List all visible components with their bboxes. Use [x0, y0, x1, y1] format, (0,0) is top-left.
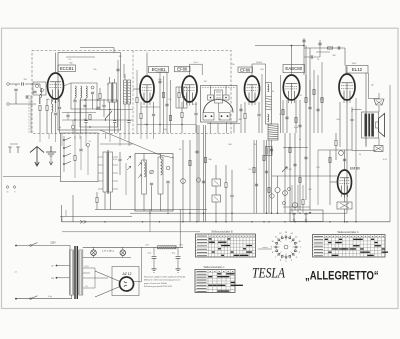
switch zigzag	[138, 175, 141, 178]
mixer network box	[80, 100, 118, 127]
capacitor	[239, 109, 242, 111]
resistor	[39, 105, 41, 110]
node	[299, 213, 300, 214]
node	[182, 221, 183, 222]
wire	[258, 248, 272, 250]
wire	[182, 140, 184, 222]
wire	[79, 133, 81, 139]
coil	[86, 86, 87, 98]
wire	[39, 111, 41, 133]
wire	[46, 99, 48, 105]
wire	[95, 287, 120, 298]
oscillator coil	[108, 83, 112, 102]
wire	[156, 71, 167, 73]
wire phono input	[3, 175, 61, 177]
wire	[210, 122, 212, 133]
coupling parts	[159, 72, 161, 133]
wire	[146, 106, 148, 134]
capacitor	[292, 213, 296, 220]
dial lamp	[91, 250, 97, 256]
capacitor	[33, 91, 36, 93]
wire	[74, 98, 76, 100]
node	[104, 221, 105, 222]
wire	[61, 205, 63, 222]
capacitor	[166, 181, 169, 183]
transformer winding	[371, 114, 374, 137]
wire	[378, 106, 380, 112]
wire	[55, 133, 57, 142]
wire	[55, 53, 57, 74]
node	[289, 213, 290, 214]
components below EF80 2	[244, 113, 246, 118]
wire	[346, 67, 348, 75]
wire heater rail	[83, 246, 183, 248]
wire	[103, 108, 105, 117]
node	[146, 124, 147, 125]
wire	[291, 46, 293, 76]
wire	[39, 95, 41, 104]
trimmer	[86, 143, 89, 146]
wire	[352, 150, 375, 152]
tube EF80	[182, 76, 197, 106]
switch zigzag	[127, 156, 131, 160]
svg-text:EF80: EF80	[177, 67, 188, 72]
wire	[74, 161, 76, 178]
wire	[205, 125, 207, 222]
wire	[96, 109, 133, 111]
switch contact	[63, 139, 65, 141]
capacitor	[270, 149, 273, 151]
wire	[113, 180, 119, 182]
wire	[109, 77, 111, 83]
wire	[282, 100, 284, 133]
arrowhead	[49, 162, 53, 166]
capacitor	[73, 100, 76, 102]
capacitor	[165, 104, 168, 106]
wire	[59, 110, 61, 133]
wire	[231, 170, 233, 194]
dashed shield box around RF section	[32, 51, 231, 134]
wire	[65, 210, 67, 217]
capacitor	[265, 171, 268, 173]
capacitor	[202, 181, 205, 183]
wire	[344, 209, 346, 222]
wire	[39, 98, 41, 104]
wire	[368, 73, 370, 99]
dial lamp	[120, 250, 126, 256]
svg-text:10k: 10k	[163, 129, 166, 131]
osc coil 2	[158, 157, 163, 194]
wire	[215, 186, 217, 195]
node	[263, 221, 264, 222]
svg-text:EF80: EF80	[240, 67, 251, 72]
ground	[176, 269, 181, 273]
node	[167, 213, 168, 214]
capacitor	[84, 121, 87, 123]
wire	[160, 154, 162, 160]
capacitor	[26, 95, 28, 98]
capacitor	[113, 121, 116, 123]
wire	[344, 194, 346, 202]
svg-text:10: 10	[271, 241, 273, 243]
power transformer core	[74, 246, 75, 299]
node	[277, 213, 278, 214]
component circle	[275, 187, 280, 192]
component box	[212, 179, 221, 186]
svg-text:Netzvorsch. gültig für 220V, s: Netzvorsch. gültig für 220V, stabilisier…	[144, 276, 186, 279]
wire	[15, 92, 17, 104]
resistor	[335, 140, 337, 145]
wire	[335, 146, 337, 160]
svg-text:1n: 1n	[144, 124, 146, 126]
wire	[85, 123, 87, 133]
wire	[74, 136, 76, 155]
resistor	[46, 105, 48, 110]
svg-text:0,1μ: 0,1μ	[48, 296, 52, 298]
resistor	[189, 160, 191, 165]
wire	[329, 150, 331, 205]
wire	[210, 86, 212, 96]
wire	[124, 133, 126, 139]
dashed internal shield	[132, 51, 134, 134]
wire	[352, 109, 362, 111]
wire	[344, 150, 346, 170]
capacitor	[311, 55, 313, 58]
stator box	[203, 113, 214, 121]
resistor	[289, 147, 291, 152]
wire	[265, 64, 267, 83]
capacitor	[79, 149, 82, 151]
wire	[141, 247, 143, 281]
wire	[95, 277, 108, 279]
resistor	[204, 157, 206, 162]
component circle	[270, 194, 274, 198]
wire	[286, 100, 288, 133]
svg-text:10k: 10k	[336, 119, 339, 121]
wire	[98, 172, 103, 174]
wire	[203, 125, 205, 222]
capacitor	[316, 109, 319, 111]
node	[303, 45, 305, 47]
wire	[71, 295, 73, 299]
svg-text:„ALLEGRETTO“: „ALLEGRETTO“	[305, 270, 379, 283]
wire	[51, 112, 53, 133]
wire	[98, 188, 103, 190]
capacitor	[127, 121, 130, 123]
resistor	[225, 182, 227, 187]
wire	[302, 205, 304, 214]
resistor	[268, 187, 270, 192]
resistor	[74, 155, 76, 160]
wire	[72, 129, 74, 133]
svg-text:127: 127	[51, 266, 54, 268]
svg-text:2M: 2M	[24, 79, 27, 81]
band filter box	[33, 82, 46, 95]
speaker cone	[379, 114, 385, 137]
wire	[15, 84, 17, 86]
tube label EF80 2	[238, 67, 253, 72]
switch contact	[63, 147, 65, 149]
wire	[85, 98, 87, 120]
svg-text:1M: 1M	[289, 169, 292, 171]
wire cathode	[51, 99, 53, 104]
capacitor	[58, 107, 61, 109]
component box	[212, 195, 221, 202]
wire	[198, 125, 200, 222]
AZ12 enclosure box	[112, 267, 139, 296]
ground	[152, 269, 157, 273]
svg-text:11: 11	[275, 236, 277, 238]
node	[271, 213, 272, 214]
wire	[277, 193, 279, 214]
trimmer	[91, 86, 94, 89]
wire riser	[319, 40, 321, 57]
wire	[100, 143, 133, 145]
wire ground bus	[62, 221, 391, 223]
wire	[30, 95, 32, 133]
svg-text:2M: 2M	[119, 56, 122, 58]
wire	[297, 185, 299, 213]
node	[344, 221, 345, 222]
wire	[39, 84, 41, 88]
tone network box	[290, 210, 323, 222]
wire	[317, 75, 319, 133]
svg-text:30/300: 30/300	[256, 62, 262, 64]
resistor	[327, 47, 332, 49]
svg-text:TESLA: TESLA	[252, 266, 286, 282]
wire	[104, 192, 106, 210]
wire	[134, 281, 142, 283]
resistor	[162, 92, 164, 97]
capacitor	[150, 183, 153, 185]
terminal	[8, 147, 12, 153]
wire	[295, 100, 297, 133]
node	[231, 213, 232, 214]
node	[196, 221, 197, 222]
capacitor	[304, 212, 311, 219]
resistor	[136, 97, 138, 102]
wire	[389, 85, 391, 222]
wire	[128, 104, 130, 120]
wire diagonal	[160, 155, 174, 158]
wire grid	[133, 88, 140, 90]
RF unit box	[58, 53, 121, 131]
svg-text:7: 7	[275, 257, 276, 259]
wire	[316, 51, 330, 53]
svg-text:1n: 1n	[299, 139, 301, 141]
svg-text:25k: 25k	[231, 64, 234, 66]
wire	[256, 140, 258, 213]
svg-text:Meßwerte: 100V U-beschleunigt: Meßwerte: 100V U-beschleunigt gemessen	[144, 279, 180, 282]
transformer winding	[368, 114, 370, 137]
wire	[268, 140, 270, 213]
wire	[55, 100, 57, 113]
capacitor	[91, 92, 94, 94]
table Wellenumschalter C	[195, 266, 243, 292]
wire	[80, 98, 82, 133]
wire	[39, 133, 41, 142]
components below EF80	[181, 112, 183, 117]
wire	[113, 164, 119, 166]
svg-text:220V: 220V	[50, 243, 56, 245]
capacitor	[96, 107, 99, 109]
node	[55, 101, 57, 103]
AF transformer	[103, 152, 107, 192]
wire	[304, 56, 310, 58]
coil L ant	[40, 88, 42, 98]
trimmer box	[208, 95, 214, 100]
wire	[94, 268, 96, 288]
wire	[72, 195, 74, 222]
node	[294, 221, 295, 222]
tube label ECC81	[58, 65, 76, 72]
tube ECH81	[140, 76, 154, 106]
wire	[167, 184, 169, 211]
node	[251, 221, 252, 222]
wire	[346, 100, 348, 213]
wire	[251, 64, 253, 76]
wire top bus center	[255, 45, 304, 47]
svg-text:2k: 2k	[107, 84, 109, 86]
wire	[215, 202, 217, 222]
node	[355, 221, 356, 222]
svg-text:1M: 1M	[204, 81, 207, 83]
wire	[294, 133, 296, 210]
wire	[153, 133, 155, 139]
svg-text:14: 14	[291, 233, 293, 235]
node	[149, 213, 150, 214]
switch	[30, 298, 32, 300]
wire	[98, 180, 103, 182]
node	[225, 221, 226, 222]
wire	[72, 120, 74, 125]
node	[84, 99, 85, 100]
ALLEGRETTO title	[305, 270, 379, 283]
wire	[330, 181, 338, 183]
arrow junction	[80, 220, 87, 223]
svg-text:5k: 5k	[359, 154, 361, 156]
primary winding	[70, 250, 74, 295]
wire	[109, 133, 111, 142]
svg-text:Wellenumschalter A: Wellenumschalter A	[337, 231, 358, 234]
wire	[99, 88, 101, 93]
trimmer box	[223, 95, 229, 100]
wire	[113, 48, 115, 53]
wire	[378, 138, 380, 146]
wire	[113, 156, 119, 158]
component circle	[293, 203, 298, 208]
svg-text:ECC81: ECC81	[60, 66, 74, 71]
node	[284, 221, 285, 222]
svg-text:Wellenumschalter B: Wellenumschalter B	[211, 231, 233, 234]
wire	[119, 152, 121, 158]
wire shield	[28, 95, 30, 133]
resistor	[313, 89, 315, 94]
wire	[80, 152, 82, 170]
components below ECH81	[140, 113, 142, 118]
electrolytic capacitor	[177, 247, 179, 255]
wire top bus segment left	[80, 47, 114, 49]
wire	[318, 149, 352, 151]
tube EABC80	[283, 75, 299, 104]
capacitor	[116, 69, 119, 71]
svg-text:15: 15	[295, 236, 297, 238]
resistor diagonal	[105, 111, 112, 119]
wire	[240, 104, 242, 133]
wire	[96, 192, 98, 197]
wire	[299, 100, 301, 133]
wire	[231, 198, 233, 222]
wire	[48, 133, 50, 139]
osc coil	[142, 160, 147, 194]
transformer winding	[365, 114, 368, 137]
svg-text:EL12: EL12	[352, 67, 363, 72]
node	[309, 213, 310, 214]
variable capacitor rotor arc	[204, 100, 234, 113]
component	[339, 151, 344, 156]
wire	[69, 246, 71, 251]
resistor	[295, 117, 297, 122]
wire	[99, 99, 101, 110]
wire	[136, 103, 138, 133]
wire	[225, 165, 227, 182]
IF transformer T1	[124, 80, 127, 104]
capacitor	[255, 184, 258, 186]
capacitor	[308, 107, 311, 109]
tube EF80 second	[245, 76, 260, 106]
wire	[225, 188, 227, 222]
svg-text:4: 4	[291, 260, 292, 262]
wire	[261, 74, 263, 133]
wire	[151, 186, 153, 211]
screen network	[190, 64, 203, 75]
IF transformer T3	[266, 83, 272, 125]
svg-text:50μ: 50μ	[148, 253, 151, 255]
volume pot box	[266, 146, 273, 155]
wire heater taps	[83, 267, 95, 269]
svg-text:EM 80: EM 80	[350, 167, 360, 171]
wire	[271, 140, 273, 213]
wire	[280, 75, 282, 133]
wire	[10, 143, 18, 145]
tuning coil box	[71, 83, 97, 109]
node	[203, 213, 204, 214]
resistor	[282, 109, 284, 114]
svg-text:1: 1	[300, 247, 301, 249]
tuning gang box	[201, 86, 238, 123]
wire	[355, 98, 357, 222]
wire mains tap	[57, 265, 70, 267]
tube EL12	[339, 74, 355, 104]
capacitor	[102, 105, 105, 107]
wire	[46, 111, 48, 133]
pickup terminal	[13, 186, 15, 188]
svg-text:50μ: 50μ	[172, 253, 175, 255]
wire	[252, 63, 266, 65]
svg-text:8: 8	[272, 252, 273, 254]
wire	[291, 185, 293, 213]
capacitor	[343, 159, 346, 161]
capacitor	[338, 46, 340, 49]
output transformer box	[362, 112, 379, 138]
table Wellenumschalter B	[196, 231, 256, 257]
wire	[110, 192, 112, 210]
wire mains live	[16, 245, 70, 247]
svg-text:6: 6	[280, 260, 281, 262]
wire	[109, 102, 111, 133]
resistor	[302, 199, 304, 204]
wire	[103, 99, 105, 104]
